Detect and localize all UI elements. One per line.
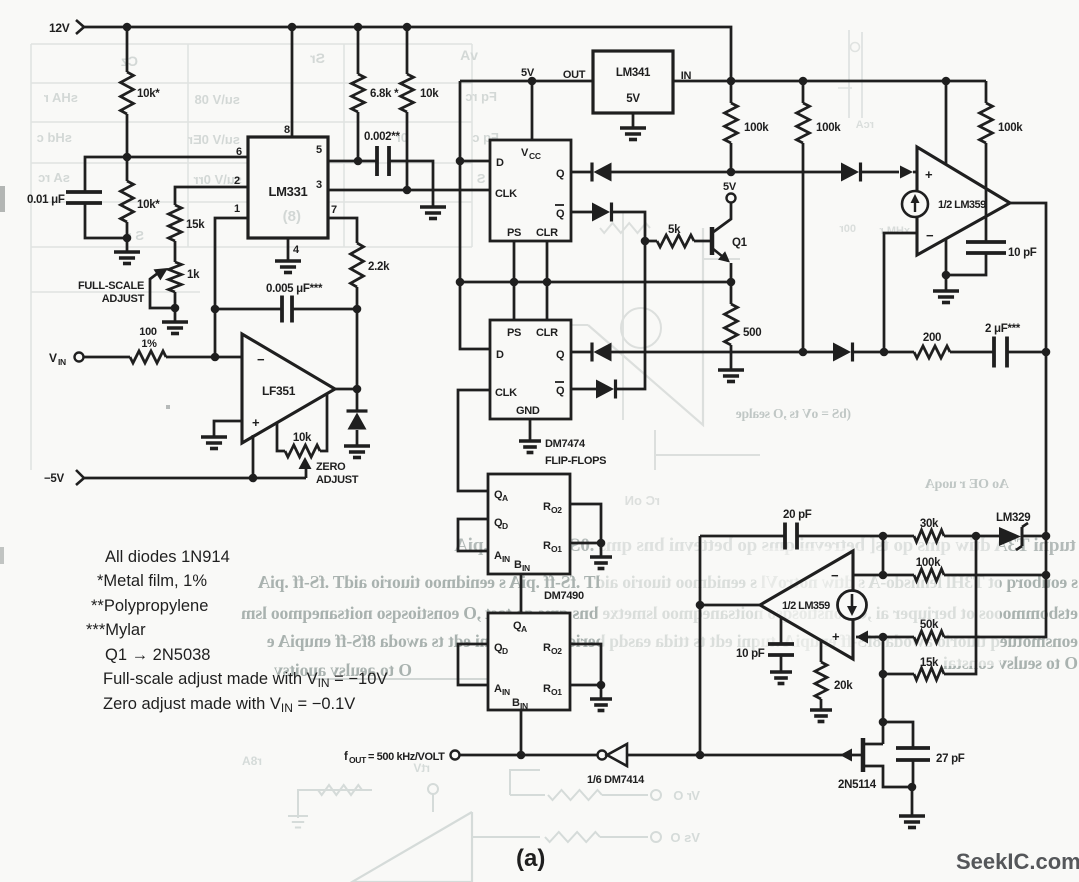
junction Q line / 100k-1 (727, 168, 736, 177)
junction 30k line / minus leg (879, 532, 888, 541)
wire Vcc stub (531, 81, 534, 140)
svg-text:5V: 5V (723, 181, 737, 193)
svg-text:A: A (494, 683, 502, 695)
junction CLR (543, 278, 552, 287)
svg-text:1: 1 (234, 203, 240, 215)
junction PS-CLR / D-chain (456, 278, 465, 287)
svg-text:Fq rc: Fq rc (465, 89, 497, 104)
wire LM359-1 output to rail (1010, 203, 1046, 575)
svg-text:OUT: OUT (563, 69, 586, 81)
wire RO tie 1 ground lead (600, 543, 603, 557)
svg-text:10k*: 10k* (137, 199, 160, 211)
svg-text:5k: 5k (668, 224, 681, 236)
wire CLR stubs (546, 241, 549, 320)
wire LM359-1 feedback (884, 233, 917, 352)
junction fout chain / 20pF leg (696, 751, 705, 760)
svg-text:(a): (a) (516, 845, 545, 872)
junction 0.005 / 2.2k (353, 305, 362, 314)
junction -5V / V- pin (249, 474, 258, 483)
svg-text:Vs O: Vs O (670, 830, 700, 845)
resistor R19 15k (883, 536, 976, 680)
label fOUT (344, 751, 445, 765)
svg-text:0.01 μF: 0.01 μF (27, 194, 65, 206)
ground (pin 4) (275, 261, 301, 273)
junction 30k / 15k leg (972, 532, 981, 541)
svg-text:−: − (831, 568, 839, 583)
svg-text:B: B (512, 697, 520, 709)
svg-text:Sr: Sr (310, 50, 325, 66)
resistor R13 100k (first) (725, 81, 770, 172)
wire LM329 to rail (1023, 535, 1046, 538)
wire LF351 V- pin (252, 435, 255, 478)
scan edge smudges (decorative) (0, 186, 170, 564)
svg-text:50k: 50k (920, 619, 939, 631)
resistor R2 10k* (lower) (121, 157, 161, 222)
junction 12V rail / 10k* (123, 23, 132, 32)
svg-text:0.002**: 0.002** (364, 131, 400, 143)
svg-text:r8A: r8A (242, 754, 262, 768)
IC U8 DM7490 (second) box (488, 613, 570, 710)
wire pin 6 (127, 146, 248, 158)
wire minus input leg (853, 536, 883, 575)
junction Qbar chain / 5k (641, 237, 650, 246)
svg-text:CLR: CLR (536, 327, 558, 339)
svg-text:rC oN: rC oN (625, 493, 660, 508)
junction PS (510, 278, 519, 287)
ground (LM341) (620, 128, 646, 140)
wire 10k* top lead (126, 27, 129, 72)
wire 30k to LM329 (944, 535, 999, 538)
resistor R4 10k (threshold) (401, 27, 440, 112)
wire 2.2k down (356, 287, 359, 389)
ground (LM359-1) (933, 291, 959, 303)
capacitor C4 2uF*** (985, 323, 1021, 368)
wire LM359-1 bias top (945, 81, 948, 164)
wire FF1 Q lead (571, 171, 592, 174)
ground (DM7474) (519, 441, 541, 453)
svg-text:Q: Q (556, 385, 565, 397)
wire plus leg vertical (882, 637, 885, 722)
label DM7474 FLIP-FLOPS (545, 438, 606, 467)
inverter U9 1/6 DM7414 (587, 744, 645, 786)
svg-text:***Mylar: ***Mylar (86, 621, 146, 639)
svg-text:2.2k: 2.2k (368, 261, 390, 273)
junction 12V rail / 10k (403, 23, 412, 32)
diode D3 1N914 (to LM359) (841, 163, 861, 182)
background bleed-through op-amp sketch (decorative) (560, 223, 760, 508)
svg-text:O1: O1 (551, 544, 562, 554)
svg-text:IN: IN (522, 563, 530, 573)
capacitor C2 0.002uF** (364, 131, 400, 176)
ground (1k) (162, 322, 188, 334)
svg-text:R: R (543, 501, 551, 513)
note metal film (97, 572, 207, 590)
svg-text:0.005 μF***: 0.005 μF*** (266, 283, 323, 295)
svg-text:27 pF: 27 pF (936, 753, 965, 765)
svg-text:vA: vA (460, 47, 478, 63)
svg-text:+: + (252, 415, 260, 430)
junction 12V rail / pin 8 (288, 23, 297, 32)
svg-text:O2: O2 (551, 505, 562, 515)
resistor R5 15k (169, 205, 206, 241)
wire source to ground (911, 787, 914, 816)
resistor R20 20k (815, 640, 853, 710)
wire FF1 Qbar lead (571, 211, 592, 214)
svg-text:V: V (521, 147, 529, 159)
svg-text:Full-scale adjust made with VI: Full-scale adjust made with VIN = −10V (103, 670, 387, 690)
terminal 12V input (49, 20, 84, 35)
svg-text:100k: 100k (916, 557, 941, 569)
ground (20k) (810, 710, 832, 722)
wire 12V top rail (84, 27, 731, 81)
junction pin3 / 10k (403, 186, 412, 195)
junction VIN line / pin1 chain (211, 353, 220, 362)
capacitor C6 27pF (883, 722, 965, 787)
svg-text:D: D (502, 646, 508, 656)
svg-text:FULL-SCALE: FULL-SCALE (78, 280, 144, 292)
svg-text:−: − (926, 228, 934, 243)
zero-adjust wiper arrow (299, 457, 312, 478)
svg-text:CLR: CLR (536, 227, 558, 239)
wire 100 to inverting input (166, 356, 242, 359)
svg-text:R: R (543, 540, 551, 552)
svg-text:Zero adjust made with VIN = −0: Zero adjust made with VIN = −0.1V (103, 695, 355, 715)
junction rail / 2uF (1042, 348, 1051, 357)
arrow into + input (860, 166, 917, 179)
svg-text:PS: PS (507, 327, 521, 339)
label ZERO ADJUST (316, 461, 359, 486)
wire 15k to 1k (174, 241, 177, 262)
background bleed-through table grid (decorative) (31, 44, 472, 470)
svg-text:2: 2 (234, 175, 240, 187)
svg-text:−: − (257, 352, 265, 367)
svg-text:A: A (502, 493, 508, 503)
junction FET source / 27pF (908, 783, 917, 792)
svg-text:Cz: Cz (121, 53, 138, 69)
svg-text:1%: 1% (141, 338, 157, 350)
wire diode to 200 (852, 351, 914, 354)
svg-text:7: 7 (331, 204, 337, 216)
wire 10k to pin 3 line (406, 112, 409, 190)
wire 0.01uF bottom (85, 203, 127, 238)
junction FET drain node (879, 718, 888, 727)
junction D-chain / D1 input (456, 157, 465, 166)
wire 0.005 line right (292, 308, 357, 311)
svg-text:su\V 08: su\V 08 (194, 92, 240, 107)
svg-text:OUT: OUT (349, 755, 367, 765)
terminal -5V (44, 470, 84, 485)
svg-text:DM7474: DM7474 (545, 438, 586, 450)
svg-text:A: A (494, 550, 502, 562)
svg-text:500: 500 (743, 327, 761, 339)
wire clamp to ground (356, 430, 359, 446)
svg-text:O2: O2 (551, 646, 562, 656)
junction RO tie 2 (597, 681, 606, 690)
capacitor 0.01uF (27, 192, 102, 206)
wire PS/CLR line (460, 281, 731, 284)
IC U5 DM7474 FF2 box (490, 320, 571, 419)
svg-text:A: A (521, 624, 527, 634)
ground (10k*) (114, 252, 140, 264)
ground (RO tie 2) (590, 699, 612, 711)
resistor R11 500 (725, 282, 762, 370)
wire 5V line (460, 80, 593, 83)
wire 12V feed line (673, 80, 986, 83)
svg-text:100k: 100k (816, 122, 841, 134)
wire 10k* to pin 6 (126, 114, 129, 157)
terminal fOUT (451, 751, 460, 760)
svg-text:Vr O: Vr O (673, 788, 700, 803)
ground (clamp diode) (344, 446, 370, 458)
resistor R17 100k (fourth) (883, 557, 1046, 581)
diode D5 1N914 (FF2 Qbar) (596, 380, 616, 399)
svg-text:LM331: LM331 (269, 184, 308, 199)
svg-text:R: R (543, 642, 551, 654)
junction 0.005 / pin1 chain (211, 305, 220, 314)
junction Q1 emitter / PS-CLR (727, 278, 736, 287)
wire Q2 line (611, 351, 833, 354)
wire pin 7 (328, 204, 357, 243)
background bleed-through table text (decorative) (37, 47, 499, 243)
potentiometer R9 10k zero (277, 394, 327, 457)
capacitor C7 20pF (783, 509, 812, 550)
svg-text:+: + (832, 629, 840, 644)
svg-text:DM7490: DM7490 (544, 590, 584, 602)
junction 12V feed / rail (727, 77, 736, 86)
P-channel gate arrow (840, 749, 852, 762)
svg-text:PS: PS (507, 227, 521, 239)
label DM7490 (544, 590, 584, 602)
svg-text:−5V: −5V (44, 473, 65, 485)
wire FF2 GND lead (529, 419, 532, 441)
junction plus / 50k (879, 633, 888, 642)
resistor R15 100k (third) (980, 81, 1024, 242)
transistor Q1 2N5038 (712, 203, 748, 282)
capacitor C3 0.005uF*** (266, 283, 323, 323)
svg-text:**Polypropylene: **Polypropylene (91, 597, 208, 615)
svg-text:5V: 5V (626, 93, 640, 105)
svg-text:2 μF***: 2 μF*** (985, 323, 1021, 335)
wire D-chain vertical (460, 81, 490, 349)
svg-text:12V: 12V (49, 21, 70, 35)
junction pin6 node (123, 153, 132, 162)
svg-text:10 pF: 10 pF (736, 648, 765, 660)
wire Qbar chain (611, 212, 645, 389)
svg-text:+: + (925, 167, 933, 182)
note Q1 (105, 646, 210, 664)
wire BIN1 to 7490-2 (520, 574, 523, 613)
junction 12V feed / bias (942, 77, 951, 86)
svg-text:CLK: CLK (495, 188, 517, 200)
wire LM359-1 bias bottom (945, 239, 948, 291)
wire CLK2 to QA chain (458, 390, 490, 491)
ground (10pF-2) (770, 672, 792, 684)
svg-text:rtV: rtV (413, 761, 430, 775)
junction 12V rail / 6.8k* (354, 23, 363, 32)
wire LF351 output (335, 388, 357, 391)
svg-text:IN: IN (502, 554, 510, 564)
svg-text:1/2 LM359: 1/2 LM359 (782, 600, 830, 612)
junction pin5 / 6.8k* (354, 157, 363, 166)
resistor R8 100 1% (130, 326, 166, 363)
wire to 0.01uF (85, 157, 127, 192)
wire QD2 to AIN2 loop (458, 644, 488, 685)
svg-text:10k: 10k (420, 88, 439, 100)
svg-text:ADJUST: ADJUST (102, 293, 145, 305)
wire RO2/RO1 tie (second) (570, 644, 601, 685)
svg-text:6: 6 (236, 146, 242, 158)
svg-text:10 pF: 10 pF (1008, 247, 1037, 259)
wire pin 3 to CLK (316, 179, 490, 191)
FF1 pin labels (495, 147, 565, 239)
IC U4 DM7474 FF1 box (490, 140, 571, 241)
wire Q line to 5V node (611, 171, 841, 174)
svg-text:D: D (496, 349, 504, 361)
svg-text:ZERO: ZERO (316, 461, 346, 473)
capacitor C8 10pF (second) (736, 617, 794, 672)
junction minus / 100k (879, 571, 888, 580)
wire gate line (700, 754, 862, 757)
svg-text:3: 3 (316, 179, 322, 191)
current source symbol (U6) (902, 191, 928, 217)
svg-text:100: 100 (139, 326, 157, 338)
svg-text:Q: Q (556, 168, 565, 180)
IC U7 DM7490 (first) box (488, 474, 570, 574)
resistor R12 200 (914, 332, 950, 358)
svg-text:SeekIC.com: SeekIC.com (956, 849, 1079, 874)
svg-text:All diodes 1N914: All diodes 1N914 (105, 548, 230, 566)
svg-text:LF351: LF351 (262, 384, 296, 398)
svg-text:IN: IN (502, 687, 510, 697)
wire inverter to node (627, 754, 700, 757)
svg-text:1/2 LM359: 1/2 LM359 (938, 199, 986, 211)
svg-text:Q1 → 2N5038: Q1 → 2N5038 (105, 646, 210, 664)
ground (0.002uF) (420, 207, 446, 219)
svg-text:LM341: LM341 (616, 67, 651, 79)
wire D input FF1 (460, 160, 490, 163)
ground (LF351 +) (201, 437, 227, 449)
arrow into + input (U10) (856, 631, 914, 644)
wire 20pF leg vertical (699, 536, 702, 755)
LM331 watermark (283, 208, 301, 225)
junction Q2 line / feedback (880, 348, 889, 357)
svg-text:D: D (496, 157, 504, 169)
svg-text:su\V 0Er: su\V 0Er (188, 132, 240, 147)
wire 10pF bottom (946, 253, 986, 275)
svg-text:sHA r: sHA r (44, 90, 78, 105)
svg-text:CLK: CLK (495, 387, 517, 399)
svg-text:Ao OE r uoqA: Ao OE r uoqA (924, 477, 1009, 492)
svg-text:Q1: Q1 (732, 237, 748, 249)
wire RO2/RO1 tie (first) (570, 504, 601, 543)
svg-text:IN: IN (520, 701, 528, 711)
wire pin 8 (284, 27, 292, 137)
label FULL-SCALE ADJUST (78, 280, 145, 305)
label 5V rail (521, 67, 535, 79)
note mylar (86, 621, 146, 639)
svg-text:D: D (502, 521, 508, 531)
background bleed-through caption text (decorative) (241, 406, 1078, 680)
label (a) (516, 845, 545, 872)
wire 1k to ground (174, 292, 177, 322)
terminal VIN (49, 351, 84, 367)
resistor R7 2.2k (351, 243, 391, 287)
note polypropylene (91, 597, 208, 615)
DM7490-2 pin labels (494, 620, 562, 711)
wire 200 to 2uF (950, 351, 994, 354)
svg-text:rcA: rcA (856, 119, 874, 131)
wire fout line (460, 754, 597, 757)
background bleed-through bottom circuit sketch (decorative) (242, 754, 700, 882)
ground (RO tie 1) (590, 557, 612, 569)
watermark SeekIC.com (956, 849, 1079, 874)
background bleed-through right marks (decorative) (623, 30, 910, 420)
svg-text:2N5114: 2N5114 (838, 779, 877, 791)
wire FF2 Q lead (571, 351, 592, 354)
wire 6.8k* to pin 5 (357, 112, 360, 161)
diode D2 1N914 (Q1 out) (592, 163, 612, 182)
svg-text:20k: 20k (834, 680, 853, 692)
DM7490-1 pin labels (494, 489, 562, 573)
svg-text:1/6 DM7414: 1/6 DM7414 (587, 774, 645, 786)
junction bias / 10pF (942, 271, 951, 280)
wire pin 5 (316, 144, 377, 161)
op-amp U2 LF351 (242, 334, 335, 443)
svg-text:30k: 30k (920, 518, 939, 530)
svg-text:15k: 15k (186, 219, 205, 231)
svg-text:ADJUST: ADJUST (316, 474, 359, 486)
junction output / 2.2k (353, 385, 362, 394)
ground (2N5114) (899, 816, 925, 828)
ground (500) (718, 370, 744, 382)
diode D4 1N914 (Qbar) (592, 203, 612, 222)
wire RO tie 2 ground lead (600, 685, 603, 699)
wire LM341 ground (632, 113, 635, 128)
wire 20pF left lead (700, 535, 785, 538)
svg-text:100k: 100k (998, 122, 1023, 134)
full-scale wiper arrow (150, 268, 174, 308)
note zero adjust (103, 695, 355, 715)
svg-text:10k: 10k (293, 432, 312, 444)
wire pin 1 chain (215, 203, 248, 357)
wire QD1 to AIN1 loop (458, 519, 488, 551)
wire LM359-2 output leg (700, 604, 760, 607)
resistor R14 100k (second) (797, 81, 842, 352)
resistor R10 5k (645, 224, 712, 247)
resistor R3 6.8k* (352, 27, 400, 112)
wire 2uF to rail (1007, 351, 1046, 354)
wire FET drain (882, 722, 885, 744)
svg-text:f: f (344, 751, 348, 763)
svg-text:V: V (49, 351, 57, 365)
resistor R16 30k (914, 518, 944, 542)
capacitor C5 10pF (966, 242, 1037, 259)
svg-text:R: R (543, 683, 551, 695)
IC U1 LM331 box (248, 137, 328, 238)
op-amp U10 1/2 LM359 (second) (760, 551, 853, 659)
wire VIN to 100 (83, 356, 130, 359)
wire FF2 Qbar lead (571, 388, 596, 391)
svg-text:= 500 kHz/VOLT: = 500 kHz/VOLT (368, 751, 445, 763)
svg-text:5: 5 (316, 144, 322, 156)
svg-text:00r: 00r (839, 223, 856, 235)
wire -5V line (84, 477, 306, 480)
svg-text:sHd c: sHd c (37, 130, 72, 145)
current source symbol (U10) (838, 591, 867, 620)
note full-scale adjust (103, 670, 387, 690)
wire 0.002 to ground (389, 161, 433, 207)
svg-text:*Metal film, 1%: *Metal film, 1% (97, 572, 207, 590)
